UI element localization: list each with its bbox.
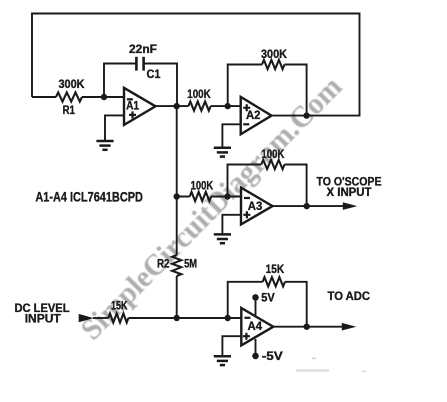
ground below A3 (214, 233, 231, 236)
svg-text:INPUT: INPUT (25, 311, 62, 325)
svg-text:X INPUT: X INPUT (327, 185, 373, 199)
arrow to ADC (342, 323, 357, 331)
node A4 inverting input (225, 315, 231, 321)
wire A2 feedback branch (228, 65, 262, 107)
node A2 output junction (303, 112, 309, 118)
op-amp A1 (124, 88, 156, 125)
svg-text:A2: A2 (246, 110, 261, 122)
A4 minus sign (244, 317, 250, 319)
node A2 non-inverting input (225, 103, 231, 109)
svg-text:A1-A4 ICL7641BCPD: A1-A4 ICL7641BCPD (35, 190, 143, 205)
5V supply node (255, 297, 257, 316)
wire A3 output with arrow (273, 205, 345, 207)
A1 plus sign (129, 111, 136, 118)
A4 plus sign (243, 333, 250, 340)
wire C1 right leg down to A1 output node (144, 64, 177, 107)
wire A2 inverting input to ground (222, 124, 240, 148)
resistor 15K input (108, 313, 128, 322)
svg-text:R2: R2 (157, 257, 170, 271)
node A4 output junction (304, 324, 310, 330)
wire main vertical bus from A1 output down (176, 106, 178, 255)
resistor 300K A2 feedback (262, 60, 285, 69)
svg-text:A1: A1 (126, 101, 140, 113)
ground below A1 (96, 140, 113, 143)
svg-text:-5V: -5V (262, 349, 283, 363)
resistor R1 300K (32, 96, 56, 98)
svg-text:22nF: 22nF (129, 42, 157, 56)
A2 minus sign (243, 123, 249, 125)
node A3 output junction (304, 203, 310, 209)
svg-text:15K: 15K (111, 299, 128, 313)
-5V supply node (255, 339, 257, 356)
wire outer feedback loop from A2 output to R1 input (32, 14, 360, 116)
wire A1 output (156, 105, 189, 107)
svg-text:TO ADC: TO ADC (328, 289, 371, 303)
svg-text:R1: R1 (62, 103, 75, 117)
resistor 100K A1 to A2 (188, 102, 210, 111)
svg-text:C1: C1 (147, 67, 161, 81)
node R2 bottom junction (174, 315, 180, 321)
resistor 100K A3 feedback (261, 160, 284, 169)
svg-text:100K: 100K (261, 147, 284, 161)
A1 minus sign (127, 98, 133, 100)
scan artifacts bottom right (312, 357, 317, 359)
A3 plus sign (243, 211, 250, 218)
svg-text:300K: 300K (261, 47, 287, 61)
resistor 15K A4 feedback (263, 277, 285, 286)
resistor R2 5M (172, 255, 181, 276)
svg-text:300K: 300K (59, 77, 85, 91)
wire A4 feedback branch (228, 282, 263, 318)
svg-text:15K: 15K (266, 262, 285, 276)
node A1 output (174, 103, 180, 109)
op-amp A4 (241, 308, 273, 345)
arrow to oscilloscope (343, 202, 358, 210)
resistor 100K into A3 (190, 192, 212, 201)
wire 15K to A4 (128, 317, 241, 319)
input arrow (79, 314, 94, 322)
wire R1 to A1 inverting input (82, 96, 124, 98)
ground below A2 (214, 147, 231, 150)
A2 plus sign (243, 104, 250, 111)
node at R1 / C1 / A1(-) junction (101, 94, 107, 100)
node A3 inverting input (224, 193, 230, 199)
capacitor C1 22nF plates (135, 57, 138, 71)
wire A3 feedback branch (228, 165, 262, 197)
svg-text:A3: A3 (248, 201, 263, 213)
svg-text:100K: 100K (187, 87, 211, 101)
wire A4 non-inverting input to ground (222, 336, 241, 356)
op-amp A2 (241, 97, 272, 134)
A3 minus sign (244, 197, 250, 199)
wire A4 output with arrow (273, 326, 343, 328)
wire C1 branch left leg (104, 64, 136, 98)
watermark (75, 70, 349, 346)
svg-text:5M: 5M (184, 257, 197, 271)
svg-text:100K: 100K (191, 179, 214, 193)
wire A1 non-inverting input to ground (105, 115, 124, 141)
op-amp A3 (241, 188, 273, 225)
svg-text:A4: A4 (248, 321, 263, 333)
ground below A4 (214, 355, 231, 358)
wire input to 15K (93, 317, 108, 319)
wire A3 non-inverting input to ground (222, 215, 241, 235)
node A3 input tap on bus (174, 193, 180, 199)
svg-text:5V: 5V (261, 291, 275, 305)
